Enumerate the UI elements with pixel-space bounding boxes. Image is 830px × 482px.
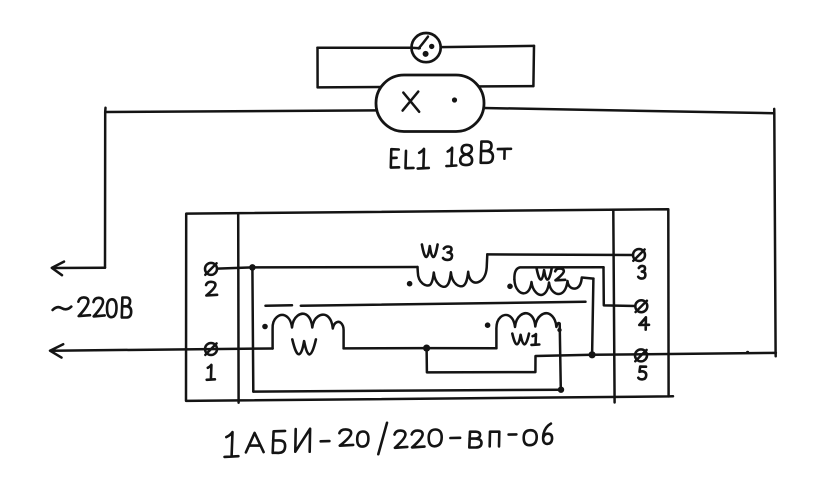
arrow head lower left <box>50 344 63 357</box>
inner divider right <box>613 210 614 403</box>
wire W to junction B <box>344 347 427 350</box>
small mark on terminal 5 outer wire <box>746 351 749 354</box>
core line dash <box>266 304 293 307</box>
wire lower-left arrow to terminal 1 and W coil <box>51 349 273 351</box>
wire lamp right to right vertical <box>484 108 775 113</box>
lamp cathode X mark <box>403 92 420 112</box>
starter bottom dot <box>423 51 429 57</box>
label ~220V <box>53 297 132 317</box>
label EL1 18Vt <box>391 142 511 169</box>
arrow head upper left <box>52 262 64 276</box>
wire W3 to terminal 3 <box>487 253 633 256</box>
coil W2 <box>514 278 593 295</box>
label coil W3 <box>422 245 452 260</box>
W1 right end small dot <box>557 328 561 332</box>
terminal 5 circle <box>635 349 647 361</box>
starter loop wire left <box>316 48 319 88</box>
label coil W1 <box>512 334 539 345</box>
wire to upper-left arrow <box>53 267 106 270</box>
starter loop wire right <box>532 46 535 86</box>
wire terminal 2 to junction A <box>217 267 252 268</box>
junction C dot <box>589 351 596 358</box>
label coil W <box>292 339 316 354</box>
coil W2 top wire <box>514 267 603 279</box>
box bottom right overshoot <box>669 395 673 398</box>
label coil W2 <box>537 269 566 281</box>
wire junction B jog down-right-up to junction C <box>427 348 592 372</box>
phase dot W3 <box>407 281 413 287</box>
wire junction B to coil W1 <box>427 347 497 350</box>
junction B dot <box>423 345 430 352</box>
wire bottom internal <box>253 390 561 392</box>
starter left contact stub <box>412 47 420 50</box>
bottom internal wire end dot <box>558 387 564 393</box>
lamp dot <box>452 97 457 102</box>
wire W2 top down to terminal 4 <box>604 267 636 306</box>
coil W1 <box>496 313 560 389</box>
junction A dot <box>249 264 256 271</box>
label terminal 5 <box>638 367 646 380</box>
lamp EL1 body <box>376 75 484 132</box>
starter loop wire top <box>318 46 535 48</box>
wire junction A to coil W3 <box>252 266 417 269</box>
label terminal 4 <box>639 317 649 329</box>
core line <box>301 302 586 306</box>
ballast box outer rectangle <box>186 209 669 401</box>
starter blade <box>419 37 428 49</box>
inner divider left <box>237 213 240 403</box>
wire W2 right end down to junction C <box>592 279 593 355</box>
phase dot W2 <box>507 284 513 290</box>
wire left vertical <box>104 108 107 268</box>
terminal 3 circle <box>633 249 645 261</box>
wire right vertical <box>774 109 776 356</box>
terminal 2 circle <box>205 263 217 275</box>
label terminal 1 <box>207 365 215 380</box>
wire junction A down left bypass vertical <box>251 267 254 391</box>
phase dot W1 <box>485 322 491 328</box>
label terminal 2 <box>206 282 217 296</box>
starter loop wire bottom <box>318 86 534 87</box>
phase dot W <box>262 324 268 330</box>
starter right contact dot <box>429 44 434 49</box>
starter SB body <box>412 33 441 62</box>
label 1ABI-20/220-VP-06 <box>225 423 553 457</box>
coil W3 <box>418 254 488 286</box>
terminal 1 circle <box>205 343 217 355</box>
wire lamp left to left vertical <box>105 110 376 112</box>
label terminal 3 <box>638 266 645 279</box>
coil W <box>273 314 344 349</box>
terminal 4 circle <box>635 300 647 312</box>
wire junction C through terminal 5 to right vertical <box>592 353 776 355</box>
